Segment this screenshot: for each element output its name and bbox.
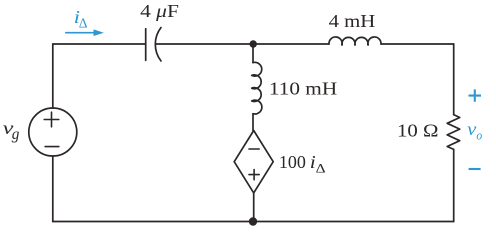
svg-text:110 mH: 110 mH bbox=[269, 79, 337, 99]
node bottom junction dot bbox=[249, 217, 257, 225]
svg-text:Δ: Δ bbox=[79, 17, 88, 32]
svg-text:g: g bbox=[12, 126, 20, 143]
svg-text:4 mH: 4 mH bbox=[329, 11, 376, 31]
capacitor C 4uF left plate bbox=[145, 29, 147, 61]
current arrow i-delta bbox=[65, 29, 104, 36]
label vo minus sign bbox=[469, 168, 481, 170]
wire left vertical lower bbox=[52, 156, 54, 222]
inductor 110mH humps bbox=[252, 62, 262, 114]
svg-text:v: v bbox=[467, 119, 476, 139]
source vg minus sign bbox=[45, 146, 59, 148]
capacitor C 4uF right curved plate bbox=[155, 28, 161, 62]
wire left vertical upper bbox=[52, 44, 54, 108]
wire top-left horizontal bbox=[53, 43, 146, 45]
wire node-to-coil bbox=[252, 44, 254, 63]
svg-text:10 Ω: 10 Ω bbox=[397, 120, 439, 140]
wire node-to-inductor bbox=[253, 43, 329, 45]
svg-text:o: o bbox=[476, 128, 482, 142]
source vg plus sign bbox=[44, 112, 59, 127]
diamond plus sign bbox=[249, 170, 259, 180]
dependent source diamond bbox=[234, 131, 273, 193]
wire coil-to-diamond bbox=[252, 114, 254, 131]
inductor 4mH humps bbox=[329, 37, 381, 45]
node top junction dot bbox=[250, 40, 257, 47]
label vo plus sign bbox=[469, 89, 482, 101]
svg-text:Δ: Δ bbox=[316, 161, 326, 175]
resistor 10ohm zigzag bbox=[447, 115, 460, 150]
wire inductor-to-right-corner bbox=[381, 43, 454, 45]
wire diamond-to-bottom-node bbox=[253, 193, 255, 222]
svg-text:100: 100 bbox=[279, 152, 306, 172]
wire right vertical lower bbox=[453, 149, 455, 221]
wire bottom rail bbox=[53, 221, 454, 223]
svg-text:4 μF: 4 μF bbox=[140, 1, 179, 21]
source vg circle bbox=[29, 108, 77, 156]
wire right vertical upper bbox=[453, 44, 455, 115]
wire capacitor-to-node bbox=[156, 43, 253, 45]
diamond minus sign bbox=[249, 148, 259, 150]
